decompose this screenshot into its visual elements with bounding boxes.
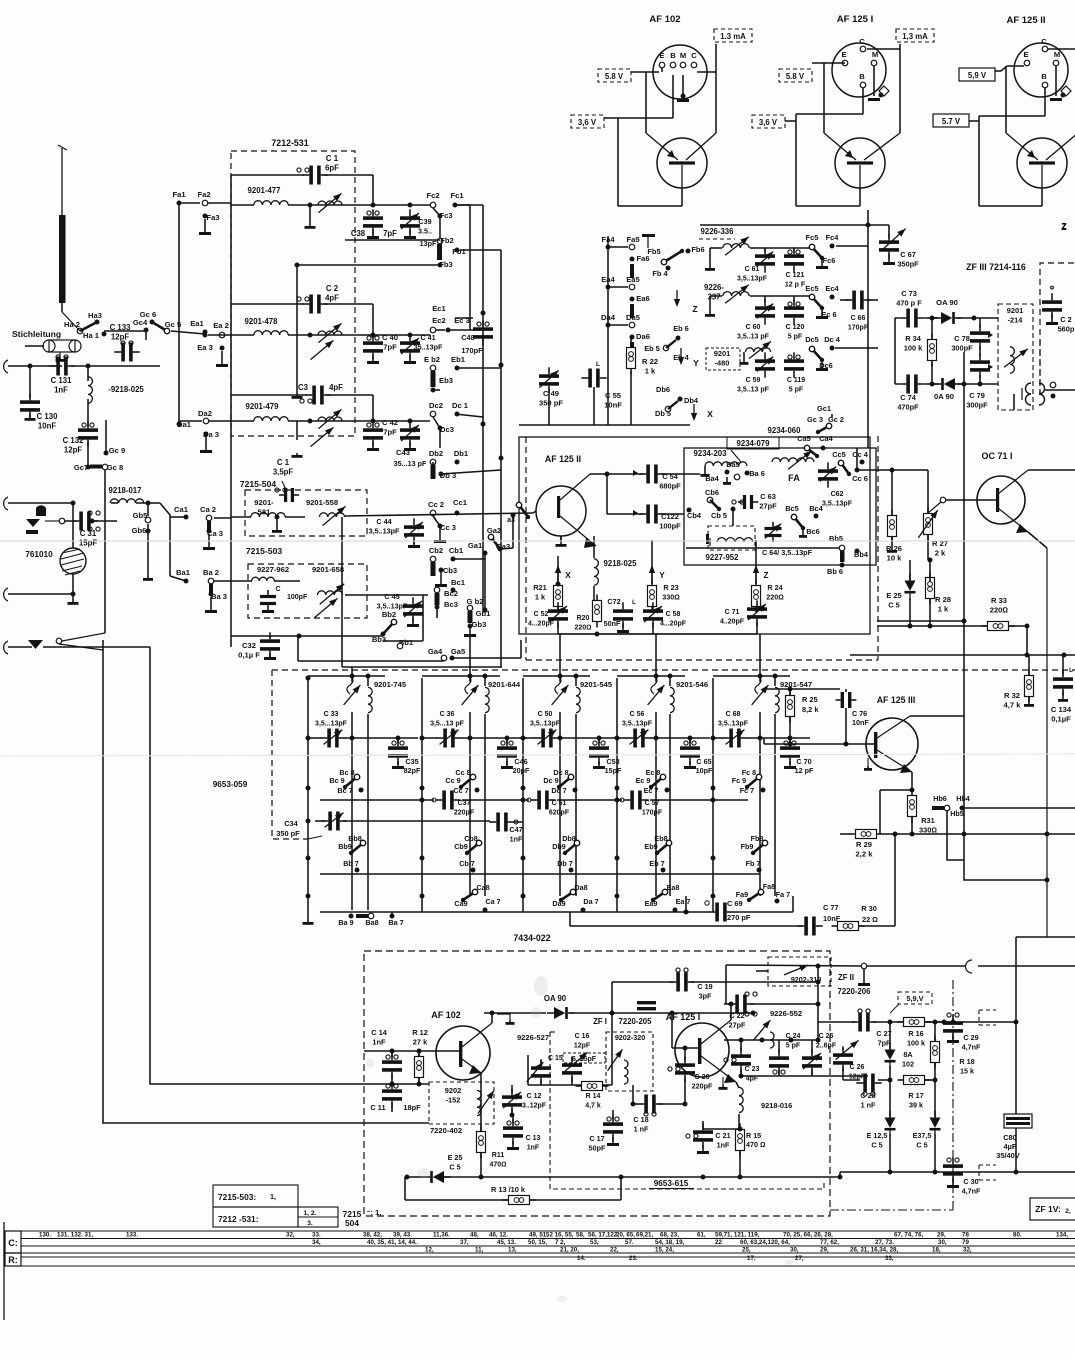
svg-text:Cc 2: Cc 2 [428,500,444,509]
svg-text:L: L [632,600,636,606]
capacitor C22 [735,995,739,1014]
svg-text:53,: 53, [590,1239,599,1246]
svg-text:Da4: Da4 [601,313,616,322]
svg-text:8A: 8A [903,1050,912,1059]
svg-text:39 k: 39 k [909,1101,923,1110]
svg-text:C 30: C 30 [963,1177,978,1186]
capacitor C132 [78,428,98,432]
svg-text:9227-952: 9227-952 [706,553,740,562]
svg-text:1nF: 1nF [54,386,68,395]
svg-text:C 5: C 5 [916,1141,927,1150]
svg-text:330Ω: 330Ω [919,826,937,835]
svg-text:C35: C35 [405,757,418,766]
capacitor C130 [20,400,40,404]
capacitor C28 [863,1074,867,1093]
svg-text:M: M [680,51,686,60]
svg-text:1, 2.: 1, 2. [303,1210,316,1217]
box 9202-319 [768,957,831,986]
svg-text:15 k: 15 k [960,1067,974,1076]
svg-text:58,: 58, [576,1232,585,1239]
svg-text:9201: 9201 [714,349,730,358]
svg-text:C 29: C 29 [963,1033,978,1042]
svg-text:3,6 V: 3,6 V [578,118,597,127]
svg-text:Bb9: Bb9 [338,842,352,851]
svg-text:Cb 7: Cb 7 [459,859,475,868]
svg-text:Da6: Da6 [636,332,650,341]
wires AF125I group [812,62,845,64]
capacitor C53 fixed [589,746,609,750]
wire 1076 row [741,1075,868,1077]
svg-text:9201-477: 9201-477 [248,186,281,195]
svg-text:Fb1: Fb1 [452,247,466,256]
svg-text:M: M [872,50,878,59]
resistor R16 [904,1018,925,1027]
capacitor C2 560p right [1042,300,1062,304]
svg-text:Eb 7: Eb 7 [649,859,664,868]
left rail Fa4 Ea4 Da4 column [607,236,609,425]
svg-text:G b2: G b2 [467,597,484,606]
vertical link C73 C74 [894,318,896,384]
svg-text:Gc1: Gc1 [817,404,831,413]
svg-text:38, 42,: 38, 42, [363,1232,382,1239]
svg-text:220pF: 220pF [454,810,475,817]
svg-text:R 28: R 28 [935,595,951,604]
svg-text:C 51: C 51 [552,800,567,807]
svg-text:C 119: C 119 [787,377,805,384]
resistor R24 [752,586,761,607]
svg-text:Bc4: Bc4 [809,504,823,513]
svg-text:E37,5: E37,5 [913,1131,932,1140]
wire AF102 base [364,1050,437,1052]
svg-text:R 30: R 30 [861,904,877,913]
stage bus 9201-644 [421,678,423,912]
svg-text:C 11: C 11 [370,1103,385,1112]
svg-text:4...20pF: 4...20pF [528,621,555,628]
svg-text:7212 -531:: 7212 -531: [218,1214,259,1224]
svg-text:C 24: C 24 [786,1033,801,1040]
wires AF102 group [631,71,659,73]
svg-text:Gc 3: Gc 3 [807,415,823,424]
capacitor C42 [363,428,383,432]
capacitor C77 [804,917,808,936]
svg-text:Fc6: Fc6 [823,256,836,265]
FA box [684,448,876,565]
svg-text:C 130: C 130 [37,412,58,421]
svg-text:25,: 25, [742,1247,751,1254]
svg-text:5,9,V: 5,9,V [906,994,923,1003]
ZF I cap bars [637,1001,656,1004]
svg-text:Gc4: Gc4 [133,318,148,327]
right bus wires [458,204,483,206]
svg-text:33,: 33, [885,1255,894,1262]
svg-text:R 12: R 12 [412,1028,428,1037]
scan smudges [366,976,793,1302]
svg-text:C 2: C 2 [1060,315,1072,324]
small trimmer C64a [765,527,782,530]
bracket connector bottom [978,1165,980,1180]
svg-text:C 60: C 60 [746,324,761,331]
svg-text:10nF: 10nF [38,422,56,431]
svg-text:Db 7: Db 7 [557,859,573,868]
svg-text:4pF: 4pF [329,383,343,392]
capacitor C55 [588,369,592,388]
svg-text:5.7 V: 5.7 V [942,117,961,126]
resistor R18 [931,1042,940,1063]
svg-text:C 1: C 1 [326,154,339,163]
svg-text:12,: 12, [425,1247,434,1254]
svg-text:Fc 9: Fc 9 [732,776,746,785]
svg-text:C 71: C 71 [725,609,740,616]
svg-text:Eb 5: Eb 5 [644,344,660,353]
svg-text:C 18: C 18 [633,1115,648,1124]
svg-text:C39: C39 [418,217,431,226]
svg-text:35..13pF: 35..13pF [414,343,443,352]
svg-text:7434-022: 7434-022 [513,933,550,943]
svg-text:R 33: R 33 [991,596,1007,605]
svg-text:Ba 7: Ba 7 [388,918,403,927]
capacitor C46 fixed [497,746,517,750]
svg-text:Ba 9: Ba 9 [338,918,353,927]
svg-text:Fa 7: Fa 7 [776,890,790,899]
capacitor C13 [503,1126,523,1130]
transistor AF 125 II mixer [536,486,586,536]
svg-text:C 45: C 45 [384,592,399,601]
svg-text:Db1: Db1 [454,449,469,458]
svg-text:C48: C48 [461,333,475,342]
svg-text:Fa8: Fa8 [763,882,775,891]
svg-text:Cb2: Cb2 [429,546,443,555]
svg-text:32,: 32, [963,1247,972,1254]
svg-text:R 23: R 23 [663,583,678,592]
svg-text:C: C [1041,37,1047,46]
svg-text:ZF 1V:: ZF 1V: [1035,1204,1061,1214]
wire horizontal 655 [850,654,1075,656]
svg-text:C72: C72 [607,597,620,606]
svg-text:80.: 80. [1013,1232,1022,1239]
svg-text:C: C [859,37,865,46]
wire right verticals [964,860,1047,880]
stage1 variable inductor [310,204,345,206]
junction after C131 [71,365,160,367]
svg-text:560p: 560p [1058,325,1075,334]
transistor AF 125 III [866,718,918,770]
capacitor C 65 fixed [680,746,700,750]
svg-text:100 k: 100 k [907,1039,925,1048]
svg-text:26, 31, 16,34, 28,: 26, 31, 16,34, 28, [850,1247,898,1254]
svg-text:3,5..13 pF: 3,5..13 pF [737,387,770,394]
svg-text:C 134: C 134 [1051,705,1072,714]
svg-text:50nF: 50nF [604,619,621,628]
svg-text:4pF: 4pF [325,294,339,303]
svg-text:AF 125 I: AF 125 I [837,14,873,25]
transistor OC 71 [977,476,1025,524]
svg-text:170pF: 170pF [461,346,483,355]
voltage label 5.9 V [959,68,995,81]
svg-text:Cc5: Cc5 [832,450,846,459]
stage2 wires right [345,334,430,336]
svg-text:5 pF: 5 pF [789,387,804,394]
svg-text:9226-: 9226- [704,283,724,292]
svg-text:Bc3: Bc3 [444,600,458,609]
svg-text:Ca5: Ca5 [797,434,811,443]
svg-text:4,7 k: 4,7 k [1004,701,1022,710]
svg-text:9201-478: 9201-478 [245,317,279,326]
svg-text:330Ω: 330Ω [662,593,680,602]
svg-text:7215-503: 7215-503 [246,546,283,556]
capacitor C66 [852,291,856,310]
svg-text:L: L [1069,668,1073,674]
svg-text:Ea 7: Ea 7 [676,897,691,906]
svg-text:3,5..13pF: 3,5..13pF [822,501,853,508]
wire osc right rail [867,210,869,448]
svg-text:9201: 9201 [1007,306,1023,315]
svg-text:Φ: Φ [1050,286,1055,292]
capacitor C60 trimmer [755,306,775,310]
svg-text:9653-059: 9653-059 [213,780,248,789]
svg-text:C 40: C 40 [382,333,398,342]
capacitor C43 trimmer [400,428,420,432]
terminal bar Fa5 [647,236,649,248]
svg-text:761010: 761010 [25,550,53,559]
svg-text:Cb 5: Cb 5 [711,511,727,520]
svg-text:5 pF: 5 pF [786,1043,801,1050]
wire Gc8 down [104,470,106,633]
svg-text:Bb2: Bb2 [382,610,396,619]
wire bottom rail 1172 [840,1171,1075,1173]
table R row box [5,1253,21,1266]
svg-text:Fa4: Fa4 [601,235,615,244]
wire 1040 row [724,1039,818,1041]
svg-text:C 121: C 121 [786,272,805,279]
trim arrow 9226-552 [754,1020,771,1040]
capacitor C24 [769,1056,789,1060]
svg-text:0,1µF: 0,1µF [1051,715,1071,724]
svg-text:7220-205: 7220-205 [619,1017,653,1026]
capacitor C58 trimmer [643,609,663,613]
wire top right corner [1016,936,1075,938]
svg-text:Ea4: Ea4 [601,275,615,284]
AF102 collector wire [491,1013,493,1023]
capacitor C17 [603,1122,623,1126]
svg-text:470pF: 470pF [897,403,919,412]
stage pair verticals [559,712,561,896]
svg-text:Db2: Db2 [429,449,443,458]
svg-text:9234-060: 9234-060 [768,426,802,435]
svg-text:21, 20,: 21, 20, [560,1247,579,1254]
osc row2 coil [723,292,749,296]
wire FA bottom internal [686,547,840,549]
capacitor C131 [56,357,60,376]
svg-text:R 16: R 16 [908,1029,923,1038]
transistor AF 125 I bottom [675,1023,729,1077]
svg-text:Cc1: Cc1 [453,498,468,507]
svg-text:3,5..13pF: 3,5..13pF [737,276,768,283]
capacitor C76 [841,692,844,708]
resistor R12 [415,1057,424,1078]
capacitor C 51 series [537,791,541,810]
arrow Y mixer [651,570,653,584]
svg-text:Bb5: Bb5 [829,534,843,543]
svg-text:R 25: R 25 [802,695,818,704]
svg-text:C 56: C 56 [630,711,645,718]
label 9201-480 [706,348,740,370]
svg-text:C 58: C 58 [666,611,681,618]
table lines [21,1230,1075,1232]
arrow X mixer [557,570,559,584]
svg-text:R 34: R 34 [905,334,922,343]
capacitor C61 trimmer [755,254,775,258]
current label 1.3 mA [714,29,752,42]
svg-text:14.: 14. [577,1255,586,1262]
svg-text:Ea8: Ea8 [667,883,680,892]
wire to C130 [29,366,31,398]
svg-text:R 27: R 27 [932,539,948,548]
svg-text:Ba8: Ba8 [365,918,378,927]
capacitor C31 [65,520,76,522]
svg-text:3.5..: 3.5.. [418,227,432,236]
AF125III collector wire [910,715,964,717]
svg-text:9234-079: 9234-079 [737,439,771,448]
svg-text:C 49: C 49 [543,389,559,398]
svg-text:C 36: C 36 [440,711,455,718]
svg-text:Cb1: Cb1 [449,546,464,555]
svg-text:Db6: Db6 [656,385,670,394]
svg-text:79: 79 [962,1239,969,1246]
transistor AF 102 bottom [436,1026,490,1080]
svg-text:Ec1: Ec1 [432,304,446,313]
svg-text:4µF: 4µF [1004,1142,1017,1151]
svg-text:Ea 3: Ea 3 [197,343,213,352]
svg-text:C 16: C 16 [575,1033,590,1040]
svg-text:Cc 9: Cc 9 [445,776,460,785]
svg-text:Y: Y [659,571,665,580]
svg-text:4..20pF: 4..20pF [720,619,745,626]
svg-text:18pF: 18pF [403,1103,421,1112]
svg-text:Gc 9: Gc 9 [109,446,125,455]
band left bus [307,678,309,920]
svg-text:350 pF: 350 pF [539,399,563,408]
wire top rail OC71 [857,469,928,471]
svg-text:C 14: C 14 [371,1028,388,1037]
capacitor C49 trimmer [539,374,559,378]
svg-text:12 pF: 12 pF [795,766,814,775]
svg-text:2,: 2, [1065,1208,1071,1215]
svg-text:Fb5: Fb5 [647,247,660,256]
svg-text:1nF: 1nF [527,1145,540,1152]
svg-text:C 23: C 23 [745,1066,760,1073]
svg-text:B: B [859,72,865,81]
stage pair verticals [351,712,353,910]
svg-text:350pF: 350pF [897,260,919,269]
resistor R27 variable [924,514,933,535]
svg-text:R 15: R 15 [746,1131,761,1140]
transistor AF 125 II symbol [1017,138,1067,188]
capacitor 100pF [260,595,276,598]
svg-text:Ca 2: Ca 2 [200,505,216,514]
wire input row4 jack [8,646,32,648]
svg-text:9201-644: 9201-644 [488,680,521,689]
svg-text:Ga1: Ga1 [468,541,483,550]
svg-text:Dc5: Dc5 [805,335,819,344]
wire C15 C16 row [527,1055,529,1085]
wire stage1 out [455,204,470,206]
svg-text:7 2,: 7 2, [555,1239,566,1246]
svg-text:B: B [670,51,676,60]
capacitor C47 [496,813,500,832]
svg-text:9653-615: 9653-615 [654,1179,689,1188]
svg-text:R 24: R 24 [767,583,782,592]
capacitor C25 trimmer [802,1056,822,1060]
svg-text:C:: C: [8,1238,18,1248]
svg-text:470Ω: 470Ω [489,1162,506,1169]
svg-text:Fc1: Fc1 [450,191,464,200]
svg-text:R 17: R 17 [908,1091,923,1100]
arrow X [693,404,695,416]
svg-text:E 25: E 25 [886,591,901,600]
mixer bottom wires [558,633,653,635]
capacitor C12 trimmer [502,1095,522,1099]
svg-text:Cb3: Cb3 [443,566,457,575]
stage3 wires [345,420,430,422]
band dashed box left part [272,670,308,839]
svg-text:Db9: Db9 [552,842,566,851]
svg-text:9226-527: 9226-527 [517,1033,549,1042]
svg-text:29,: 29, [820,1247,829,1254]
antenna mast [61,148,63,215]
svg-text:C 12: C 12 [527,1093,542,1100]
svg-text:Dc2: Dc2 [429,401,443,410]
svg-text:Dc 9: Dc 9 [543,776,558,785]
svg-text:ZF II: ZF II [838,973,854,982]
svg-text:Z: Z [763,571,768,580]
svg-text:Ba1: Ba1 [176,568,191,577]
svg-text:8,2 k: 8,2 k [802,705,819,714]
voltage label 5.8 V [779,69,812,82]
resistor R29 [856,830,877,839]
capacitor C21 [693,1130,713,1134]
svg-text:M: M [1054,50,1060,59]
capacitor C71 trimmer [747,607,767,611]
svg-text:OA 90: OA 90 [936,298,958,307]
diode E37,5 [929,1118,940,1128]
stage pair verticals [759,712,761,896]
table left border [3,1222,5,1320]
long wire left A [150,647,364,1084]
capacitor C78 stack [970,331,990,335]
svg-text:68, 23,: 68, 23, [660,1232,679,1239]
scan seam [0,540,1075,542]
capacitor C122 [646,505,650,524]
svg-text:Z: Z [1061,221,1066,231]
resistor R15 [736,1130,745,1151]
svg-text:35...13 pF: 35...13 pF [394,459,427,468]
wire input row2 [8,502,73,504]
svg-text:R20: R20 [577,615,590,622]
svg-text:Fa9: Fa9 [736,890,748,899]
svg-text:Dc 1: Dc 1 [452,401,469,410]
box 7215-503 row [213,1185,298,1207]
table C row box [5,1231,21,1253]
svg-text:7212-531: 7212-531 [271,138,308,148]
svg-text:4,7 k: 4,7 k [585,1103,601,1110]
resistor R21 [554,586,563,607]
svg-text:Cb6: Cb6 [705,488,719,497]
svg-text:Cc 6: Cc 6 [852,474,868,483]
svg-text:4...20pF: 4...20pF [660,621,687,628]
svg-text:C: C [691,51,697,60]
diamond marker 2 [1061,86,1071,96]
svg-text:E b2: E b2 [424,355,440,364]
